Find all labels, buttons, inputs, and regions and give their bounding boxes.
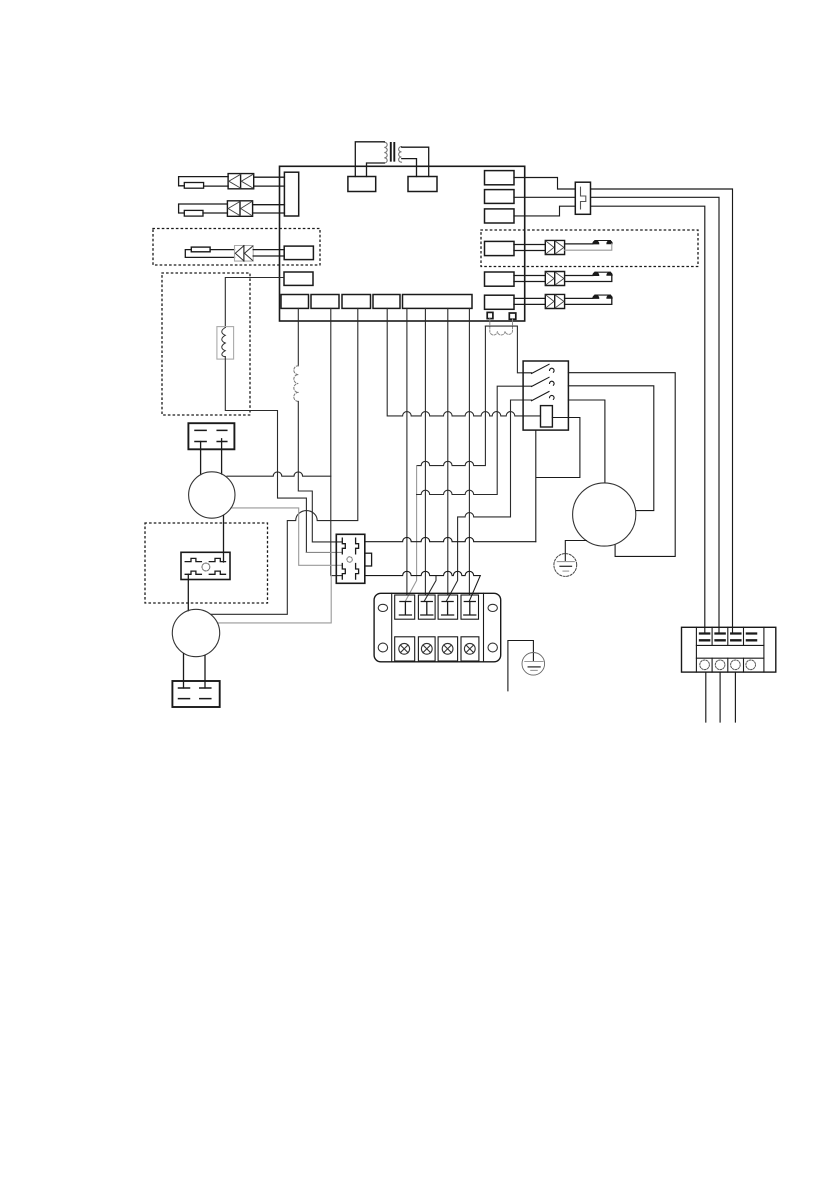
connector CN4 housing xyxy=(545,240,564,254)
compressor motor MC xyxy=(573,483,636,546)
SEC_BOARD xyxy=(280,166,525,335)
protector OL1 element bottom-right xyxy=(209,571,225,574)
connector CN1 contact arrows xyxy=(229,174,253,188)
protector OL1 element top-right xyxy=(209,558,225,561)
connector CN-R5 xyxy=(485,272,515,286)
wire CN-B5 lead 2 to terminal TB1-2 xyxy=(424,308,426,594)
terminal block TB2 screw bars xyxy=(700,634,756,641)
wire fan motor M1 to OL2 pin3 (grey) xyxy=(231,508,342,565)
terminal block TB1 outline xyxy=(374,593,501,662)
capacitor C2 box xyxy=(172,681,219,707)
connector CN5 housing xyxy=(545,272,564,286)
connector CN6 contact arrows xyxy=(546,295,564,308)
wire CN-F to heater fuse FH xyxy=(225,278,284,328)
wire CN-R3 to breaker F1 xyxy=(514,206,575,216)
thermistor TH3 body xyxy=(191,247,210,252)
wire fan motor M1 lower to OL2 pin4 (grey) xyxy=(218,576,332,623)
protector OL1 box xyxy=(181,552,230,579)
terminal block TB2 side dividers xyxy=(696,627,764,672)
SEC_RIGHT_SIDE xyxy=(514,178,776,723)
earth symbol E1 bars xyxy=(557,561,574,563)
wire grey drop to terminal TB1-1 xyxy=(405,466,416,602)
connector CN2 housing xyxy=(227,201,252,217)
transformer T1 core bars xyxy=(391,143,395,161)
capacitor C1 box xyxy=(188,423,234,449)
choke L1 winding (dashed) xyxy=(294,366,299,402)
fan motor M2 xyxy=(172,609,219,656)
wire contact3 to compressor MC top xyxy=(568,400,605,483)
transformer T2 secondary winding (dashed) xyxy=(490,319,513,335)
connector CN-R6 xyxy=(485,295,515,309)
wire TH3 to connector CN3 xyxy=(210,249,234,251)
connector CN-B3 xyxy=(342,295,371,309)
terminal TB1 screw posts top row xyxy=(399,602,411,616)
switch SW3 contact dome B xyxy=(607,295,612,298)
contactor 52C contact 3 xyxy=(532,392,555,401)
protector OL1 element bottom-left xyxy=(185,571,201,574)
connector CN5 contact arrows xyxy=(546,272,564,285)
switch SW2 return lead xyxy=(565,275,612,281)
switch SW1 return lead (grey) xyxy=(565,244,612,251)
wire OL1 to fan motor M2 xyxy=(187,574,189,610)
wire CN-B3 down and left to fan motor M2 (wide hop) xyxy=(211,308,358,614)
terminal TB1 bottom cell 2 xyxy=(418,637,435,661)
switch SW3 return lead xyxy=(565,298,612,304)
switch SW1 contact dome B xyxy=(607,241,612,244)
connector CN-B2 xyxy=(311,295,339,309)
pin pad P1 of on-board transformer T2 xyxy=(487,312,493,318)
diagonal jog into terminal TB1-2 xyxy=(424,576,436,602)
terminal TB1 top cell 2 xyxy=(418,595,435,619)
overload relay OL2 box xyxy=(336,534,365,583)
connector CN-R2 xyxy=(485,190,515,204)
connector CN-B4 xyxy=(373,295,400,309)
wire choke L1 to overload relay OL2 pin1 xyxy=(298,401,342,542)
wire TH2 to connector CN2 xyxy=(203,212,227,214)
connector CN3 divider xyxy=(243,246,245,262)
wire earth E2 lead xyxy=(508,641,534,691)
wire node N2 to fan motor M1 (with hops) xyxy=(227,472,331,476)
switch SW1 top lead xyxy=(565,243,593,245)
connector CN-F (fuse heater) xyxy=(284,272,313,285)
wire OL2 pin4b to terminal TB1-4 (lower bumpy run) xyxy=(365,571,481,601)
overload relay OL2 pilot circle xyxy=(347,557,352,562)
connector CN4 contact arrows xyxy=(546,241,564,254)
switch SW1 bridge bar xyxy=(595,240,611,242)
wire contactor contact3 to terminal TB1-3 xyxy=(446,400,531,601)
wire contact2 to compressor MC right xyxy=(568,386,653,511)
pin pad P2 of on-board transformer T2 xyxy=(509,313,516,319)
wire heater fuse FH to overload relay OL2 pin2 xyxy=(225,357,306,553)
connector CN-R4 xyxy=(485,241,515,255)
switch SW1 contact dome A xyxy=(593,241,599,244)
wire OL2 pin4 stub xyxy=(331,575,342,577)
wire M2 to capacitor C2 xyxy=(184,654,206,689)
SEC_TRANSFORMER_TOP xyxy=(355,142,428,177)
terminal TB1 top cell 4 xyxy=(461,595,479,619)
terminal block TB1 inner dividers xyxy=(392,593,484,662)
terminal block TB2 cell dividers xyxy=(712,627,743,672)
wire CN-B2 down to node N2 xyxy=(330,308,332,575)
connector CN6 housing xyxy=(545,294,564,308)
SEC_MIDDLE_WIRES xyxy=(211,278,541,623)
connector CN-B5 (wide output header) xyxy=(403,295,473,309)
switch SW3 top lead xyxy=(565,297,593,299)
connector CN2 contact arrows xyxy=(228,202,252,216)
earth symbol E2 bars xyxy=(525,661,543,663)
wire supply rail L3 xyxy=(591,206,705,633)
transformer T1 primary winding xyxy=(384,142,387,163)
switch SW3 bridge bar xyxy=(595,294,611,296)
wire supply rail L2 xyxy=(591,197,720,633)
connector CN-S (tall sensor header) xyxy=(284,172,298,216)
wire coil bottom / box bottom junction run xyxy=(536,418,580,542)
wire TH1 to connector CN1 xyxy=(204,185,229,187)
wire pair CN-R4 to connector CN4 xyxy=(514,245,545,251)
wire supply rail L1 xyxy=(591,189,733,633)
thermistor TH2 body xyxy=(184,210,203,216)
thermistor TH2 lead loop xyxy=(179,204,228,213)
fan motor M1 xyxy=(189,472,235,518)
dotted enclosure (fan protector option) box 3 xyxy=(145,523,268,603)
wire C1 to fan motor M1 xyxy=(201,439,222,475)
connector CN-R3 xyxy=(485,209,515,223)
thermistor TH3 lead loop xyxy=(185,250,234,258)
wire TB2 supply tails xyxy=(706,672,736,722)
wire CN-B5 lead 1 to terminal TB1-1 xyxy=(406,308,408,594)
SEC_CONTACTOR xyxy=(336,361,675,601)
heater fuse FH body (grey case) xyxy=(217,327,234,360)
overload relay OL2 element top-left xyxy=(342,538,345,554)
wire T1 secondary pin 2 to CN-T2 xyxy=(402,159,417,177)
earth symbol E2 circle xyxy=(522,653,545,676)
transformer T1 secondary winding xyxy=(399,147,402,163)
wire T1 secondary pin 1 to CN-T2 xyxy=(402,147,429,176)
wire contactor contact2 feed (bumpy run to grey drop) xyxy=(417,386,532,494)
wire transformer T2 top bar to contactor pin1 xyxy=(485,326,523,373)
SEC_TERMINALS xyxy=(374,593,501,662)
contactor 52C coil xyxy=(541,406,553,427)
contactor 52C contact 2 xyxy=(532,377,555,386)
capacitor C2 plates xyxy=(179,688,211,699)
overload relay OL2 side lug xyxy=(365,553,372,566)
SEC_MOTORS xyxy=(172,423,636,707)
terminal TB1 bottom cell 4 xyxy=(461,637,479,661)
wire stub into OL2 pin2 (grey) xyxy=(306,551,342,553)
wire pair CN3 to CN-S3 xyxy=(253,250,284,256)
switch SW2 contact dome A xyxy=(593,272,599,275)
terminal TB1 top cell 1 xyxy=(395,595,415,619)
main control board PCB outline xyxy=(280,166,525,321)
switch SW3 contact dome A xyxy=(593,295,599,298)
switch SW2 contact dome B xyxy=(607,272,612,275)
capacitor C1 plates xyxy=(195,430,227,441)
terminal TB1 bottom cell 1 xyxy=(395,637,415,661)
wire CN-B4 to contactor coil (bumpy run) xyxy=(387,308,540,416)
terminal block TB2 outline xyxy=(682,627,776,672)
overload relay OL2 element top-right xyxy=(356,538,359,554)
wire transformer T2 left leg to node (bumpy run left) xyxy=(417,326,486,466)
wire pair CN-R5 to connector CN5 xyxy=(514,276,545,282)
overload relay OL2 element bottom-right xyxy=(356,564,359,580)
terminal TB1 top cell 3 xyxy=(438,595,458,619)
connector CN1 housing (plug/receptacle pair) xyxy=(228,174,254,189)
protector OL1 element top-left xyxy=(185,558,201,561)
contactor 52C contact 1 xyxy=(523,364,554,373)
SEC_DOTTED xyxy=(145,229,698,604)
switch SW2 top lead xyxy=(565,275,593,277)
dotted enclosure (float switch option) box right xyxy=(481,230,698,267)
terminal block TB1 mounting holes xyxy=(378,604,497,652)
thermistor TH1 lead loop xyxy=(179,177,229,186)
wire CN-R1 to breaker F1 xyxy=(514,178,575,190)
breaker F1 body xyxy=(575,182,590,214)
thermistor TH1 body xyxy=(184,183,203,189)
wire contact1 to compressor MC bottom xyxy=(568,373,675,557)
connector CN-R1 xyxy=(485,171,515,185)
wire CN-B5 lead 3 to terminal TB1-3 xyxy=(447,308,449,594)
connector CN-B1 xyxy=(281,295,309,309)
heater fuse FH element xyxy=(222,328,226,357)
dotted enclosure (optional sensor kit) box 1 xyxy=(153,229,320,266)
wire T1 primary pin 2 to CN-T1 xyxy=(367,163,385,177)
overload relay OL2 element bottom-left xyxy=(342,564,345,580)
protector OL1 pilot circle xyxy=(202,563,210,571)
breaker F1 bimetal glyph xyxy=(581,187,586,209)
dotted enclosure (heater option) box 2 xyxy=(162,273,250,415)
connector CN3 housing (grey) xyxy=(235,246,254,262)
connector CN-T2 (transformer secondary) xyxy=(408,177,437,192)
terminal TB1 screw heads bottom row xyxy=(399,643,475,654)
terminal block TB2 middle band xyxy=(696,645,764,658)
contactor 52C box xyxy=(523,361,568,430)
earth symbol E1 circle xyxy=(554,554,577,577)
wire T1 primary pin 1 to CN-T1 xyxy=(355,142,384,177)
wire M1 to protector OL1 xyxy=(223,516,225,563)
terminal TB1 bottom cell 3 xyxy=(438,637,458,661)
wire pair CN-R6 to connector CN6 xyxy=(514,298,545,304)
wire pair CN2 to CN-S xyxy=(253,205,285,213)
wire CN-R2 to breaker F1 xyxy=(514,196,575,198)
wire pair CN1 to CN-S xyxy=(254,177,285,186)
switch SW2 bridge bar xyxy=(595,271,611,273)
connector CN3 contact arrows xyxy=(235,246,252,260)
connector CN-T1 (transformer primary) xyxy=(348,177,376,192)
wire CN-B5 lead 4 to terminal TB1-4 xyxy=(468,308,470,594)
wire CN-B1 down to choke L1 xyxy=(297,308,299,365)
connector CN-S3 xyxy=(284,246,313,260)
terminal block TB2 wire entry circles (dashed) xyxy=(700,660,756,670)
SEC_LEFT_SENSORS xyxy=(179,174,285,262)
wire MC to earth E1 xyxy=(565,541,586,562)
wire OL2 pin1b to contactor (upper bumpy run) xyxy=(365,537,536,541)
